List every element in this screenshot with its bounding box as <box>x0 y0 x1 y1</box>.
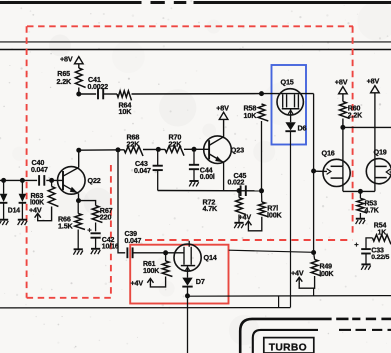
wire C40 to base node <box>46 179 63 181</box>
resistor R70 <box>165 133 184 156</box>
outer rounded frame <box>240 319 391 353</box>
svg-text:+4V: +4V <box>291 269 304 278</box>
transistor Q19 <box>366 159 391 192</box>
node R71 junction <box>259 188 264 193</box>
wire drain node to Q16 <box>342 127 344 166</box>
node Q22 emitter junction <box>76 198 81 203</box>
svg-text:+8V: +8V <box>216 103 229 112</box>
wire C39 to gate node <box>133 252 166 254</box>
capacitor C45 <box>228 171 247 196</box>
wire left input <box>0 179 37 181</box>
svg-text:4.7K: 4.7K <box>365 208 379 215</box>
svg-text:10K: 10K <box>119 107 133 116</box>
wire C33 to ground <box>365 254 367 264</box>
wire Q14 drain to R49 node <box>229 250 314 252</box>
svg-text:l00K: l00K <box>267 211 283 220</box>
transistor Q22 <box>58 167 86 195</box>
resistor R72 <box>203 197 246 214</box>
red highlight box around Q14 <box>130 245 228 304</box>
ground (R72) <box>234 223 244 228</box>
wire R68 to C43 node <box>143 148 165 150</box>
resistor R67 <box>92 206 112 223</box>
transistor Q16 label <box>322 148 335 157</box>
svg-text:R61: R61 <box>143 261 156 268</box>
node R60 junction <box>340 125 345 130</box>
red dashed box bottom edge <box>27 297 111 299</box>
svg-text:0.022: 0.022 <box>228 180 245 187</box>
ground (D14a) <box>0 220 8 225</box>
transistor Q14 label <box>204 253 217 262</box>
wire C43 to emitter rail <box>157 170 159 190</box>
svg-text:10K: 10K <box>244 111 258 120</box>
wire D6 down long <box>290 132 292 308</box>
wire Q15 source to D6 <box>290 109 292 123</box>
wire R71 to +4V bend <box>248 217 261 231</box>
transistor Q19 label <box>374 147 387 156</box>
ground (R53) <box>356 219 366 224</box>
svg-text:D7: D7 <box>196 277 205 286</box>
wire R49 to +4V bend <box>299 276 314 288</box>
wire emitter rail <box>158 190 262 192</box>
wire D14b to ground <box>21 202 23 219</box>
svg-text:R60: R60 <box>348 105 361 112</box>
horizontal double rail upper line <box>0 41 391 43</box>
wire R65 to node A <box>78 88 80 95</box>
node C43 junction <box>156 147 161 152</box>
+4V supply symbol (R63) <box>29 206 42 220</box>
node R72 junction <box>237 188 242 193</box>
wire R66 to ground <box>77 230 79 249</box>
resistor R66 <box>58 214 85 231</box>
wire Q16 gate <box>314 170 327 172</box>
wire R60 to drain node <box>342 119 344 128</box>
svg-text:D6: D6 <box>298 124 307 133</box>
svg-text:Q16: Q16 <box>322 148 335 157</box>
wire C42 to ground <box>95 238 97 249</box>
wire node B through Q15 to bend <box>262 93 314 95</box>
resistor R71 <box>258 202 282 220</box>
wire R53 to ground <box>359 213 361 218</box>
wire C44 node down <box>193 149 195 164</box>
resistor R64 <box>117 91 132 116</box>
svg-text:2.2K: 2.2K <box>348 112 362 119</box>
resistor R54 <box>373 235 391 245</box>
ground (R66) <box>73 249 83 254</box>
wire D14a to ground <box>3 202 5 219</box>
diode D14b <box>8 194 26 215</box>
+8V supply symbol (R65) <box>60 55 83 64</box>
node C44 junction <box>192 147 197 152</box>
node D7 junction <box>185 293 190 298</box>
TURBO label box <box>264 338 314 353</box>
wire source rail <box>343 190 375 192</box>
svg-text:22K: 22K <box>169 139 183 148</box>
svg-text:TURBO: TURBO <box>269 343 307 353</box>
svg-text:C43: C43 <box>135 159 148 168</box>
wire bottom long rail <box>0 307 291 309</box>
wire drain rail right <box>343 126 391 128</box>
svg-text:Q19: Q19 <box>374 147 387 156</box>
transistor Q23 label <box>231 145 244 154</box>
node C39 riser junction <box>116 147 121 152</box>
wire +8V to Q23 collector <box>223 119 225 136</box>
resistor R61 <box>143 261 172 277</box>
ground (C42) <box>91 249 101 254</box>
red dashed box left edge <box>26 26 28 298</box>
+4V supply symbol (R71) <box>239 213 252 228</box>
wire R72 to ground <box>238 215 240 223</box>
svg-text:R49: R49 <box>320 264 333 271</box>
svg-text:C44: C44 <box>200 166 213 175</box>
svg-text:+4V: +4V <box>29 206 42 215</box>
+4V supply symbol (R49) <box>291 269 304 284</box>
node Q14 gate junction <box>163 250 168 255</box>
horizontal double rail lower line <box>0 49 391 51</box>
svg-text:Q14: Q14 <box>204 253 217 262</box>
wire D14b down <box>21 180 23 193</box>
wire bottom rail riser <box>278 296 280 307</box>
transistor Q15 label <box>281 77 294 86</box>
wire collector node to R68 <box>79 149 124 151</box>
svg-text:10/16: 10/16 <box>102 243 119 250</box>
wire C44 to ground <box>193 169 195 180</box>
red dashed box top edge <box>27 25 353 27</box>
diode D7 <box>182 277 205 287</box>
wire Q22 collector up <box>78 150 80 167</box>
capacitor C39 <box>125 231 142 258</box>
wire R49 top lead <box>314 253 315 260</box>
svg-text:+: + <box>354 240 359 249</box>
svg-text:Q23: Q23 <box>231 145 244 154</box>
resistor R58 <box>244 104 269 121</box>
wire Q19 gate stub <box>390 171 391 173</box>
wire R71 node down <box>261 191 263 202</box>
resistor R60 <box>340 102 363 120</box>
wire R54 to C33 <box>366 238 373 249</box>
wire R63 node down <box>51 180 53 186</box>
+8V supply symbol (R60) <box>335 78 348 94</box>
wire +8V to R60 <box>342 94 344 102</box>
svg-text:0.047: 0.047 <box>31 167 48 174</box>
node R63 junction <box>49 178 54 183</box>
wire D7 node down to edge <box>187 296 189 353</box>
node A junction <box>76 92 81 97</box>
svg-text:4.7K: 4.7K <box>203 204 219 213</box>
svg-text:R53: R53 <box>365 201 378 208</box>
+8V supply symbol (Q19) <box>367 77 380 93</box>
ground (C44) <box>189 181 199 186</box>
wire R53 top lead <box>359 191 361 198</box>
blue highlight box around Q15 <box>272 65 307 145</box>
wire R64 to R58 node <box>132 93 262 95</box>
node R49 top junction <box>311 250 316 255</box>
svg-text:C41: C41 <box>88 75 101 84</box>
svg-text:+4V: +4V <box>131 278 144 287</box>
transistor Q16 <box>323 159 350 191</box>
wire Q14 drain stub <box>188 241 190 247</box>
wire C39 riser <box>118 150 125 253</box>
wire R70 to C44 node <box>184 148 209 150</box>
wire emitter to R66 <box>77 201 79 214</box>
red dashed box mid horizontal edge <box>145 239 353 241</box>
svg-text:+8V: +8V <box>367 77 380 86</box>
wire D14a down <box>3 180 5 193</box>
svg-text:D14: D14 <box>8 208 21 215</box>
svg-text:0.00l: 0.00l <box>200 174 215 181</box>
svg-text:0.047: 0.047 <box>134 168 151 175</box>
svg-text:1.5K: 1.5K <box>58 221 74 230</box>
node D14b junction <box>20 178 25 183</box>
wire Q23 emitter down <box>223 163 225 191</box>
wire vertical from top rail bend <box>313 94 315 253</box>
red dashed box right edge <box>352 26 354 236</box>
transistor Q14 <box>174 244 201 271</box>
svg-text:22K: 22K <box>127 139 141 148</box>
node D14a junction <box>1 178 6 183</box>
svg-text:Q22: Q22 <box>88 176 101 185</box>
wire R67 to C42 <box>95 223 97 232</box>
diode D6 <box>285 122 306 132</box>
node B junction (R58 top) <box>259 91 264 96</box>
inner rounded frame <box>253 330 391 353</box>
wire emitter to R67 <box>79 201 96 206</box>
node R53 junction <box>358 189 363 194</box>
wire R61 to +4V bend <box>150 277 165 287</box>
capacitor C42 (electrolytic) <box>87 225 119 250</box>
wire +8V down to Q19 <box>374 93 376 167</box>
ground (D14b) <box>18 220 28 225</box>
wire R72 node down <box>238 191 240 198</box>
red dashed box inner vertical edge <box>110 165 112 298</box>
wire +8V to R65 <box>78 64 80 68</box>
svg-text:+8V: +8V <box>60 55 73 64</box>
node Q22 collector junction <box>76 148 81 153</box>
svg-text:Q15: Q15 <box>281 77 294 86</box>
node Q16 gate junction <box>311 169 316 174</box>
wire R58 to emitter rail <box>261 121 263 191</box>
resistor R65 <box>57 68 86 88</box>
svg-text:220: 220 <box>100 213 112 222</box>
resistor R54 label <box>374 222 387 236</box>
diode D14a <box>0 194 7 203</box>
svg-text:+: + <box>87 225 92 234</box>
svg-text:0.22/5: 0.22/5 <box>371 254 389 261</box>
resistor R53 <box>357 198 379 214</box>
wire D7 to node <box>187 287 189 296</box>
wire gate node to Q14 <box>166 252 184 254</box>
transistor Q15 <box>277 89 303 115</box>
svg-text:+4V: +4V <box>239 213 252 222</box>
wire gate node to R61 <box>165 253 167 261</box>
wire Q14 source to D7 <box>187 266 189 278</box>
svg-text:C40: C40 <box>32 158 45 167</box>
capacitor C33 (electrolytic) <box>354 240 389 261</box>
transistor Q23 <box>204 136 232 164</box>
capacitor C40 <box>31 158 48 186</box>
transistor Q22 label <box>88 176 101 185</box>
svg-text:C45: C45 <box>234 171 247 180</box>
wire C41 to R64 <box>104 93 117 95</box>
wire R63 to +4V bend <box>38 207 52 221</box>
wire node A to C41 <box>79 93 96 95</box>
capacitor C41 <box>88 75 109 99</box>
resistor R68 <box>124 133 143 156</box>
capacitor C44 <box>189 165 215 181</box>
top border bar (solid then dashed) <box>0 1 391 4</box>
svg-text:100K: 100K <box>143 268 159 275</box>
ground (C33) <box>361 264 371 269</box>
wire D7 node right (output) <box>188 295 391 298</box>
svg-text:+8V: +8V <box>335 78 348 87</box>
svg-text:0.0022: 0.0022 <box>88 84 109 91</box>
wire Q22 emitter down <box>78 193 80 200</box>
capacitor C43 <box>134 159 163 175</box>
svg-text:2.2K: 2.2K <box>57 77 73 86</box>
resistor R49 <box>311 260 333 278</box>
resistor R63 <box>30 187 58 207</box>
+4V supply symbol (R61) <box>131 278 154 287</box>
svg-text:l00K: l00K <box>319 271 333 278</box>
+8V supply symbol (Q23) <box>216 103 229 119</box>
wire +4V bend to output <box>313 288 315 296</box>
wire C43 node down <box>157 149 159 165</box>
svg-text:0.047: 0.047 <box>125 238 142 245</box>
